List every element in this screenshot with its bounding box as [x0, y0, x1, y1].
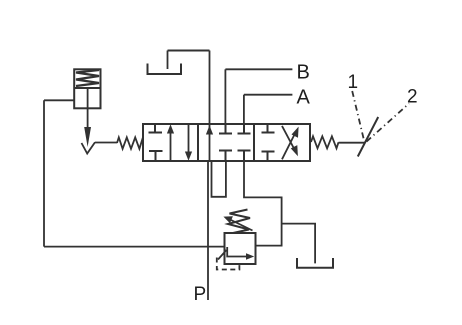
- svg-text:P: P: [194, 284, 207, 305]
- centre box: blocked port B top (T): [225, 124, 227, 134]
- centre box: open passage P-T with up arrow: [209, 124, 211, 161]
- relief valve inlet diagonal tick: [218, 250, 227, 260]
- wire: port A horizontal to label: [244, 94, 293, 96]
- wire: A-side bottom port down: [244, 161, 282, 246]
- svg-text:A: A: [297, 87, 311, 109]
- svg-text:1: 1: [348, 72, 359, 93]
- top tank symbol: [148, 64, 182, 75]
- centre box: blocked port bottom-right (T): [238, 150, 251, 152]
- wire: pilot box left stub: [44, 99, 74, 101]
- svg-text:2: 2: [407, 87, 418, 108]
- right box: blocked port top (T): [267, 124, 269, 133]
- relief valve adjustable spring: [228, 210, 250, 234]
- right box: crossed flow arrow up-right: [282, 134, 295, 160]
- relief valve internal flow arrow: [227, 247, 248, 257]
- wire: branch to bottom tank: [282, 224, 316, 264]
- divider of pilot box: [74, 87, 100, 89]
- wire: top run to tank: [168, 50, 210, 52]
- directional valve body: centre position box: [198, 124, 254, 161]
- wire: P jumper U to centre bottom port: [212, 161, 226, 197]
- relief valve body: [225, 233, 256, 264]
- wire: P line down from valve: [207, 161, 209, 300]
- left box: blocked port bottom (T): [149, 150, 163, 152]
- left box: down arrow: [188, 124, 190, 152]
- detent position line 2 (dash-dot): [367, 104, 410, 142]
- relief spring adjustment arrow: [229, 219, 253, 231]
- centre box: blocked port bottom-left (T): [219, 150, 232, 152]
- left return spring of valve: [117, 137, 143, 148]
- left box: blocked port top (T): [154, 124, 156, 133]
- directional valve body: right position box: [254, 124, 310, 161]
- wire: port B riser: [224, 69, 226, 124]
- bottom tank symbol: [297, 258, 333, 268]
- directional valve body: left position box: [143, 124, 198, 161]
- wire: spring to lever: [339, 142, 365, 144]
- right return spring of valve: [311, 136, 339, 148]
- detent position line 1 (dash-dot): [352, 91, 363, 139]
- manual lever: [358, 117, 378, 157]
- right box: crossed flow arrow down-right: [282, 126, 295, 150]
- spring inside pilot box: [76, 70, 99, 86]
- wire: T port up from valve: [209, 51, 211, 125]
- wire: port B horizontal to label: [225, 68, 292, 70]
- pilot pressure-control box (spring chamber) top-left: [74, 69, 100, 108]
- wire: left loop vertical: [43, 100, 45, 246]
- wire: port A riser: [243, 95, 245, 124]
- right box: blocked port bottom (T): [262, 151, 275, 153]
- wire: bottom pilot line to relief inlet: [44, 246, 225, 248]
- left box: up arrow: [170, 131, 172, 161]
- pilot actuator stem with needle arrow: [87, 88, 89, 129]
- wire: V to left spring: [95, 142, 117, 144]
- svg-text:B: B: [297, 62, 310, 84]
- funnel V under pilot arrow: [82, 142, 96, 153]
- relief valve pilot line (dashed): [217, 258, 240, 270]
- centre box: blocked port A top (T): [243, 124, 245, 134]
- wire: drop into top tank: [167, 51, 169, 70]
